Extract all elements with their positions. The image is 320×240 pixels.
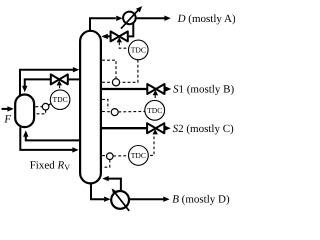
controller TDC1 (reflux)	[129, 40, 149, 60]
prefractionator liquid line (bottom, to main column)	[20, 127, 72, 150]
prefractionator vapor line (top, to main column)	[20, 70, 73, 96]
valve S1	[147, 84, 156, 94]
sensor T3 lower tap	[102, 160, 110, 168]
svg-text:S1 (mostly B): S1 (mostly B)	[173, 84, 234, 96]
prefractionator shell	[15, 95, 34, 128]
sensor T2 upper tap	[102, 99, 108, 109]
sensor T4 link to TDC4	[48, 103, 51, 105]
svg-text:TDC: TDC	[131, 151, 146, 160]
distillate line D	[136, 17, 165, 19]
sensor T4 lower tap	[35, 110, 45, 114]
condenser duty arrow	[121, 10, 139, 29]
svg-text:F: F	[3, 113, 11, 125]
sensor T4 direct tap	[35, 106, 42, 108]
reflux line	[128, 23, 134, 37]
reflux valve signal arrow	[117, 37, 122, 42]
controller TDC4 (prefractionator)	[50, 90, 70, 110]
svg-text:D (mostly A): D (mostly A)	[177, 13, 235, 25]
svg-text:TDC: TDC	[131, 45, 146, 54]
sensor T1 direct tap	[102, 81, 112, 83]
reboiler	[111, 191, 129, 209]
sensor T3 (S2)	[107, 153, 114, 160]
bottoms product line B	[129, 198, 164, 200]
svg-text:Fixed RV: Fixed RV	[30, 160, 71, 173]
sensor T2 (S1)	[111, 109, 118, 116]
TDC3 measurement line	[113, 155, 128, 157]
controller TDC2 (S1)	[145, 100, 165, 120]
reflux valve	[111, 31, 120, 41]
sensor T1 upper tap	[102, 60, 116, 78]
controller TDC3 (S2)	[129, 146, 149, 166]
svg-text:TDC: TDC	[53, 95, 68, 104]
valve S2	[147, 123, 156, 133]
sensor T2 direct tap	[102, 111, 111, 113]
vapor split line (bottom, to prefractionator)	[26, 136, 80, 140]
valve S1 signal arrow	[153, 90, 158, 95]
feed line F	[2, 108, 9, 110]
main column shell	[80, 31, 101, 184]
liquid split valve RL	[51, 74, 60, 84]
valve RL signal arrow	[57, 80, 62, 85]
sensor T1 (upper)	[112, 79, 119, 86]
condenser	[123, 12, 136, 25]
TDC2 measurement line	[118, 110, 144, 113]
sensor T3 direct tap	[102, 155, 106, 157]
TDC1 measurement line	[119, 60, 137, 83]
sidestream S2 line	[101, 127, 147, 129]
bottoms line to reboiler	[91, 184, 104, 199]
svg-text:B (mostly D): B (mostly D)	[172, 194, 230, 206]
valve S2 signal arrow	[153, 129, 158, 134]
overhead vapor line	[90, 18, 116, 30]
sidestream S1 line	[101, 88, 147, 90]
svg-text:TDC: TDC	[147, 106, 162, 115]
reboiler duty arrow	[114, 192, 129, 211]
boilup vapor line	[108, 179, 121, 192]
sensor T4 (prefractionator)	[42, 103, 49, 110]
svg-text:S2 (mostly C): S2 (mostly C)	[173, 123, 234, 135]
liquid split line (top, to prefractionator)	[68, 78, 80, 80]
